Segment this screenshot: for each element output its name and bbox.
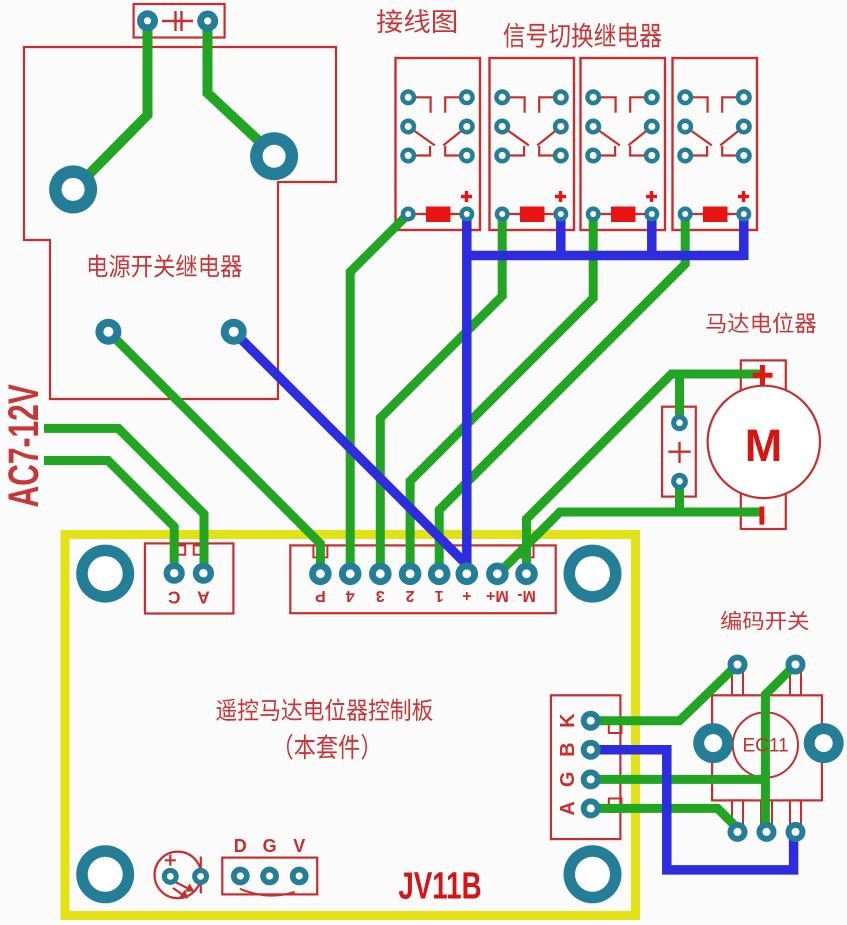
svg-text:C: C — [168, 588, 181, 608]
svg-text:A: A — [557, 801, 579, 815]
svg-text:2: 2 — [406, 587, 415, 604]
svg-text:K: K — [557, 713, 579, 728]
svg-text:M+: M+ — [486, 587, 509, 604]
svg-text:3: 3 — [376, 587, 385, 604]
svg-text:G: G — [263, 836, 277, 856]
svg-text:AC7-12V: AC7-12V — [0, 384, 47, 508]
svg-text:JV11B: JV11B — [398, 865, 481, 907]
svg-text:V: V — [293, 836, 305, 856]
svg-text:4: 4 — [346, 587, 355, 604]
svg-text:M-: M- — [517, 587, 536, 604]
svg-text:G: G — [557, 772, 579, 788]
svg-text:D: D — [234, 836, 247, 856]
svg-text:A: A — [197, 588, 210, 608]
svg-text:1: 1 — [435, 587, 444, 604]
svg-text:M: M — [745, 420, 783, 471]
svg-text:+: + — [462, 587, 471, 604]
svg-text:EC11: EC11 — [742, 736, 788, 757]
svg-text:B: B — [557, 742, 579, 756]
svg-text:P: P — [315, 587, 326, 604]
